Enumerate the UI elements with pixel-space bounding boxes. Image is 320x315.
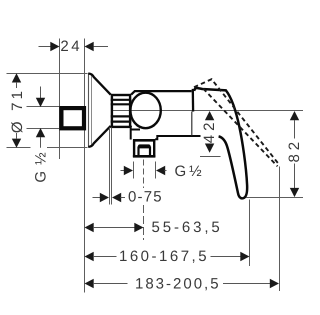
svg-text:0-75: 0-75 xyxy=(128,189,163,206)
wire wall extension line xyxy=(59,39,61,160)
wire flange-face reference extension line xyxy=(84,39,86,293)
svg-text:42: 42 xyxy=(201,119,218,144)
pipe stub S-union xyxy=(61,108,84,128)
svg-text:160-167,5: 160-167,5 xyxy=(119,248,209,265)
svg-text:G ½: G ½ xyxy=(175,163,203,180)
outlet centerline xyxy=(143,160,145,189)
body bottom edge under dome xyxy=(131,129,140,131)
node axis centerline xyxy=(112,110,303,112)
handle raised dashed outline upper xyxy=(194,79,279,165)
escutcheon flange rim xyxy=(91,75,93,146)
body bottom right edge xyxy=(155,136,200,139)
svg-text:Ø 71: Ø 71 xyxy=(9,88,26,133)
dimension diameter 71 xyxy=(7,73,88,148)
dimension 0-75 extension lines xyxy=(109,128,111,205)
handle crease xyxy=(192,89,195,112)
escutcheon cone top xyxy=(88,74,110,95)
cartridge dome xyxy=(130,93,160,128)
dimension 24 xyxy=(39,38,109,55)
body right edge xyxy=(191,112,193,136)
dimension 183-200,5 xyxy=(85,275,280,292)
dimension 55-63,5 xyxy=(85,219,223,236)
svg-text:82: 82 xyxy=(286,138,303,163)
body top edge xyxy=(131,91,191,95)
body left lower edge xyxy=(130,126,133,140)
svg-text:55-63,5: 55-63,5 xyxy=(152,219,223,236)
svg-text:183-200,5: 183-200,5 xyxy=(135,275,221,292)
outlet top band xyxy=(133,139,155,142)
handle raised dashed outline lower xyxy=(203,89,277,167)
dashed lever tip extension line xyxy=(279,167,281,292)
outlet inner divider right xyxy=(149,147,151,157)
dimension G 1/2 inlet xyxy=(27,87,60,183)
dimension 82 xyxy=(246,111,303,198)
dimension 0-75 xyxy=(93,189,163,206)
outlet inner divider left xyxy=(137,147,139,157)
dimension G 1/2 outlet xyxy=(121,162,203,181)
escutcheon flange face xyxy=(88,73,90,147)
outlet right wall xyxy=(153,139,155,157)
handle lever xyxy=(194,88,247,198)
svg-text:G ½: G ½ xyxy=(33,151,50,182)
dimension 42 xyxy=(200,111,221,157)
svg-text:24: 24 xyxy=(60,38,82,55)
dimension 160-167,5 xyxy=(85,248,250,265)
solid lever tip extension line xyxy=(249,200,251,267)
union nut knurled xyxy=(111,95,132,127)
outlet center boss xyxy=(138,144,152,148)
outlet bottom edge xyxy=(133,155,156,158)
outlet left wall xyxy=(133,139,135,157)
escutcheon cone bottom xyxy=(88,126,110,147)
